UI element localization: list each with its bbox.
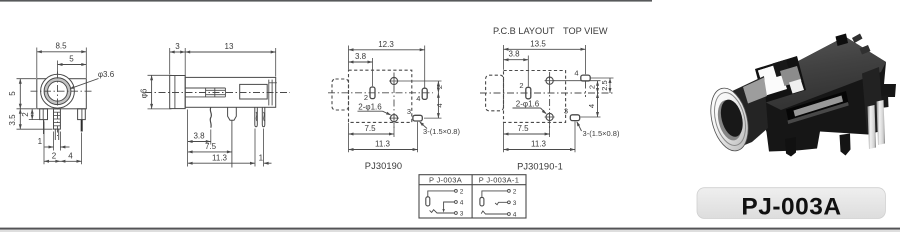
svg-text:P.C.B LAYOUT: P.C.B LAYOUT [493,26,555,36]
dim 3.5 left side [17,128,53,130]
front view right leg [78,109,86,120]
front view ring outer edge [44,78,71,105]
svg-text:P J-003A: P J-003A [429,175,462,184]
svg-text:2: 2 [52,152,57,161]
cell1 wire to terminal 2 [428,191,455,197]
front view left pin [43,120,45,134]
side view dim 7.5 [188,151,232,153]
svg-text:3.8: 3.8 [193,132,205,141]
front view right pin [81,120,83,132]
pcb2 right dim 2.5 [591,77,614,79]
cell1 sleeve contact [426,197,430,206]
pcb2 body dashed outline [504,71,566,123]
side view rear pins [255,107,257,126]
pcb2 dim 3.8 [527,56,529,87]
pcb1 top hole [390,77,397,84]
connector metal barrel ring [705,84,754,155]
pcb1 bottom hole [390,115,397,122]
cell1 terminal 2 [455,190,458,193]
svg-text:3: 3 [407,107,411,116]
pcb2 bottom hole [546,113,553,120]
pcb1 dim 3.8 [372,58,374,86]
connector barrel ring inner step [709,89,750,148]
svg-text:2: 2 [519,81,523,90]
bottom gray strip [0,230,900,232]
front view body outline [37,79,87,109]
svg-text:8.5: 8.5 [55,42,67,51]
connector top tab [852,34,863,44]
pcb2 dim 11.3 bottom [503,123,505,152]
pcb1 slot pad 2 [370,87,375,99]
pcb2 right dims 2 and 4 [554,80,601,82]
cell1 switch to terminal 3 [430,210,455,213]
connector white insert small right block [789,79,804,94]
svg-text:4: 4 [68,152,73,161]
svg-text:PJ-003A: PJ-003A [741,194,841,221]
connector white insert main block [758,64,787,96]
connector top face [749,37,886,111]
pcb1 slot pad 4 [422,88,427,99]
connector top face back notch [836,34,849,47]
pcb1 barrel dashed outline [332,79,349,110]
svg-text:2-φ1.6: 2-φ1.6 [516,99,540,108]
dim 5 top [57,61,59,75]
svg-text:4: 4 [435,103,444,107]
svg-text:2-φ1.6: 2-φ1.6 [358,103,382,112]
svg-text:13: 13 [225,42,234,51]
pcb2 dim 13.5 [503,45,505,70]
cell1 wire from terminal 4 [444,202,455,211]
svg-text:13.5: 13.5 [530,39,546,48]
connector silver pin 1 [868,105,877,149]
front view horizontal centerline [31,90,94,92]
pcb1 dim 11.3 bottom [348,123,350,153]
connector barrel hole rim [714,98,746,143]
svg-text:2: 2 [513,188,517,195]
connector silver pin 2 [877,100,886,145]
connector black pin middle [840,134,851,156]
pcb2 slot pad 3 [570,115,579,121]
connector insert dark notch [773,60,791,78]
pcb1 slot pad 3 [413,115,422,121]
connector insert gray shadow part [780,66,802,86]
connector pin holder block right [862,67,884,133]
svg-text:3-(1.5×0.8): 3-(1.5×0.8) [423,127,460,136]
svg-text:4: 4 [587,104,596,108]
top border line [0,0,652,2]
svg-text:3.8: 3.8 [355,52,367,61]
svg-text:4: 4 [460,200,464,207]
cell2 terminal 3 [508,201,511,204]
svg-text:7.5: 7.5 [517,124,529,133]
front view jack outer circle [41,74,75,108]
svg-text:4: 4 [416,94,420,103]
cell1 terminal 3 [455,212,458,215]
dim 2 left side [29,119,40,121]
pcb2 dim 7.5 bottom [549,123,551,137]
svg-text:3-(1.5×0.8): 3-(1.5×0.8) [583,129,620,138]
side view front wiggle pin [210,107,211,127]
label pill PJ-003A [697,188,885,219]
svg-text:1: 1 [259,153,264,162]
svg-text:5: 5 [69,54,74,63]
svg-text:3.5: 3.5 [8,114,17,126]
schematic table frame [419,175,526,218]
svg-text:2: 2 [435,85,444,89]
pcb1 right dims 2 and 4 [399,80,442,82]
front view vertical centerline [57,72,59,137]
svg-text:3.8: 3.8 [508,50,520,59]
svg-text:7.5: 7.5 [205,142,217,151]
front view left leg [40,109,48,120]
side view rear block [240,84,268,99]
pcb1 dim 7.5 bottom [393,124,395,137]
svg-text:φ3.6: φ3.6 [98,70,115,79]
dim 8.5 top [36,48,38,79]
svg-text:2: 2 [460,188,464,195]
pcb1 horizontal centerline [328,92,433,94]
side view pin channel [185,87,225,89]
connector barrel cylinder top highlight [743,78,767,104]
pcb2 slot pad 2 [526,87,531,99]
cell2 wire to terminal 2 [482,191,508,198]
pcb1 body dashed outline [349,70,412,122]
svg-text:2: 2 [21,112,30,117]
dim 5 left side [17,78,37,80]
svg-text:φ6: φ6 [139,88,148,98]
side view dim 11.3 [188,162,255,164]
svg-text:3: 3 [564,107,568,116]
side view collar [170,76,186,109]
dim 1 center pin [53,132,55,151]
side view dim 3 top [169,48,171,75]
front view left leg inner line [42,109,44,120]
side view dim 13 top [275,48,277,77]
front view hole circle phi3.6 [48,81,68,101]
svg-text:2.5: 2.5 [600,80,609,90]
front view center pin with hatches [54,109,61,129]
svg-text:2: 2 [364,93,368,102]
svg-text:11.3: 11.3 [212,153,228,162]
cell2 terminal 2 [508,190,511,193]
side view phi6 dim [148,74,172,76]
connector barrel cylinder side [726,76,768,149]
side view body [185,77,276,107]
cell1 terminal 4 [455,201,458,204]
svg-text:12.3: 12.3 [378,40,394,49]
front view ring shading [46,80,69,103]
svg-text:11.3: 11.3 [375,140,391,149]
svg-text:2: 2 [588,85,597,89]
side view centerline [145,92,290,94]
front view right leg inner line [81,109,83,120]
dim 2 and 4 bottom [43,122,45,165]
pcb2 barrel dashed outline [486,75,504,111]
side view dim 3.8 [187,110,189,167]
connector white insert top bar [758,62,789,81]
svg-text:PJ30190-1: PJ30190-1 [517,161,563,171]
pcb1 dim 12.3 [348,46,350,70]
connector top cutout opening [755,56,806,103]
pcb2 vertical centerline [549,72,551,128]
svg-text:3: 3 [460,211,464,218]
connector groove contact bar [794,96,844,117]
cell2 sleeve contact [480,197,484,206]
svg-text:4: 4 [513,212,517,219]
cell2 hook wire to terminal 3 [495,202,507,204]
svg-text:7.5: 7.5 [364,124,376,133]
pcb2 top hole [546,77,553,84]
pcb2 horizontal centerline [480,92,614,94]
connector barrel hole [717,97,746,139]
svg-text:TOP VIEW: TOP VIEW [563,26,608,36]
svg-text:3: 3 [513,200,517,207]
svg-text:P J-003A-1: P J-003A-1 [479,175,519,184]
connector black pin stub right [880,95,889,108]
side view dim 1 [264,162,272,164]
pcb1 vertical centerline [393,73,395,129]
cell2 switch wire to terminal 4 [481,211,507,214]
svg-text:3: 3 [175,42,180,51]
connector groove lower lip [788,102,849,124]
connector black pin front [785,137,796,157]
side view center lug pin [228,107,237,120]
connector right back tab [860,45,871,55]
cell2 terminal 4 [508,213,511,216]
svg-text:5: 5 [8,91,17,96]
connector body silhouette [749,37,896,152]
pcb2 slot pad 4 [581,75,590,81]
svg-text:PJ30190: PJ30190 [365,161,402,171]
bottom border line [0,228,900,230]
svg-text:1: 1 [38,137,43,146]
svg-text:11.3: 11.3 [531,140,547,149]
connector side groove [786,91,849,122]
svg-text:4: 4 [574,69,578,78]
